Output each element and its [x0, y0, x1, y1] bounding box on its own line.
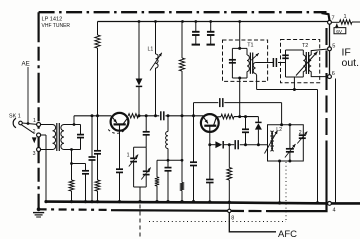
svg-text:VHF TUNER: VHF TUNER [42, 23, 71, 29]
svg-text:T2: T2 [302, 43, 308, 49]
svg-text:SK 1: SK 1 [9, 114, 21, 120]
svg-text:1: 1 [33, 118, 36, 124]
svg-text:4: 4 [333, 208, 336, 214]
svg-text:1: 1 [127, 153, 130, 159]
svg-text:2: 2 [33, 129, 36, 135]
svg-text:3: 3 [33, 151, 36, 157]
svg-text:7: 7 [332, 16, 335, 22]
svg-text:T1: T1 [247, 43, 253, 49]
svg-text:6: 6 [332, 71, 335, 77]
svg-text:1: 1 [344, 14, 347, 20]
svg-text:6V: 6V [336, 29, 343, 35]
svg-text:LP 1412: LP 1412 [42, 17, 63, 23]
svg-text:8: 8 [231, 216, 234, 222]
svg-text:out.: out. [342, 57, 360, 69]
svg-text:AFC: AFC [278, 229, 297, 239]
svg-text:L1: L1 [148, 47, 154, 53]
svg-text:AE: AE [22, 61, 30, 68]
svg-text:5: 5 [332, 43, 335, 49]
